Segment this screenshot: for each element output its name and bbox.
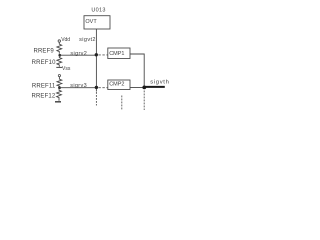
svg-text:RREF11: RREF11 [32, 84, 56, 90]
svg-text:CMP2: CMP2 [109, 82, 124, 88]
junction dot 2 [95, 86, 98, 89]
svg-text:sigrv3: sigrv3 [70, 83, 87, 89]
node sigrv3 dot [58, 86, 61, 89]
svg-text:Vss: Vss [62, 66, 71, 72]
wire CMP2 output [130, 87, 143, 89]
node sigvth dot [142, 86, 146, 90]
wire dashed continuation below junction 2 [95, 92, 97, 106]
resistor RREF11 [57, 79, 62, 86]
block U013 OVT [84, 16, 110, 29]
dashed continuation below sigvth node [143, 91, 145, 111]
dashed continuation below CMP2 [121, 96, 123, 110]
svg-text:sigvt2: sigvt2 [79, 37, 96, 43]
power Vss rail [56, 66, 62, 68]
dashed wire junction 2 to CMP2 [98, 87, 107, 89]
power node branch 2 [58, 75, 60, 77]
wire node sigrv3 to junction 2 [60, 87, 97, 89]
wire sigvth thick stub [146, 86, 165, 88]
resistor RREF10 [57, 57, 62, 67]
comparator CMP2 [108, 80, 130, 90]
svg-text:OVT: OVT [85, 19, 97, 25]
svg-text:CMP1: CMP1 [109, 51, 124, 57]
resistor RREF9 [57, 44, 62, 54]
wire node sigrv2 to junction [60, 54, 97, 56]
svg-text:sigvth: sigvth [150, 80, 169, 86]
node sigrv2 dot [58, 54, 61, 57]
resistor RREF12 [57, 89, 62, 101]
wire Vdd to RREF9 [58, 42, 60, 44]
svg-text:sigrv2: sigrv2 [70, 51, 87, 57]
wire OVT output (vertical) [95, 29, 97, 92]
wire to RREF11 [58, 77, 60, 80]
svg-text:RREF12: RREF12 [31, 94, 55, 100]
ground rail branch 2 [55, 101, 61, 103]
dashed wire junction 1 to CMP1 [98, 54, 107, 56]
svg-text:RREF9: RREF9 [33, 49, 54, 55]
junction dot 1 [95, 53, 98, 56]
svg-text:U013: U013 [91, 7, 105, 13]
power Vdd [58, 40, 60, 42]
svg-text:Vdd: Vdd [61, 37, 70, 43]
svg-text:RREF10: RREF10 [32, 60, 56, 66]
comparator CMP1 [108, 48, 130, 59]
wire CMP1 output [130, 54, 144, 87]
